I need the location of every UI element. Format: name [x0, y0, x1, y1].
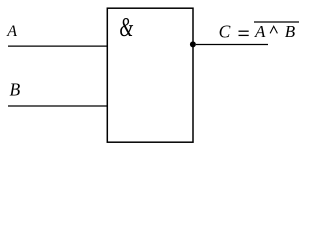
svg-text:&: &: [119, 12, 133, 42]
svg-text:B: B: [285, 22, 296, 41]
svg-text:C: C: [219, 21, 231, 41]
negation dot at output node: [190, 41, 196, 47]
svg-text:A: A: [254, 22, 266, 41]
svg-text:B: B: [10, 80, 21, 100]
equals sign (two bars): [239, 30, 249, 32]
output wire C: [196, 44, 268, 46]
wire A: [8, 45, 107, 47]
gate body U1 (NAND block): [107, 8, 193, 142]
logical AND wedge: [270, 26, 277, 33]
overline (negation bar): [254, 21, 299, 23]
wire B: [8, 105, 107, 107]
svg-text:A: A: [6, 23, 17, 40]
